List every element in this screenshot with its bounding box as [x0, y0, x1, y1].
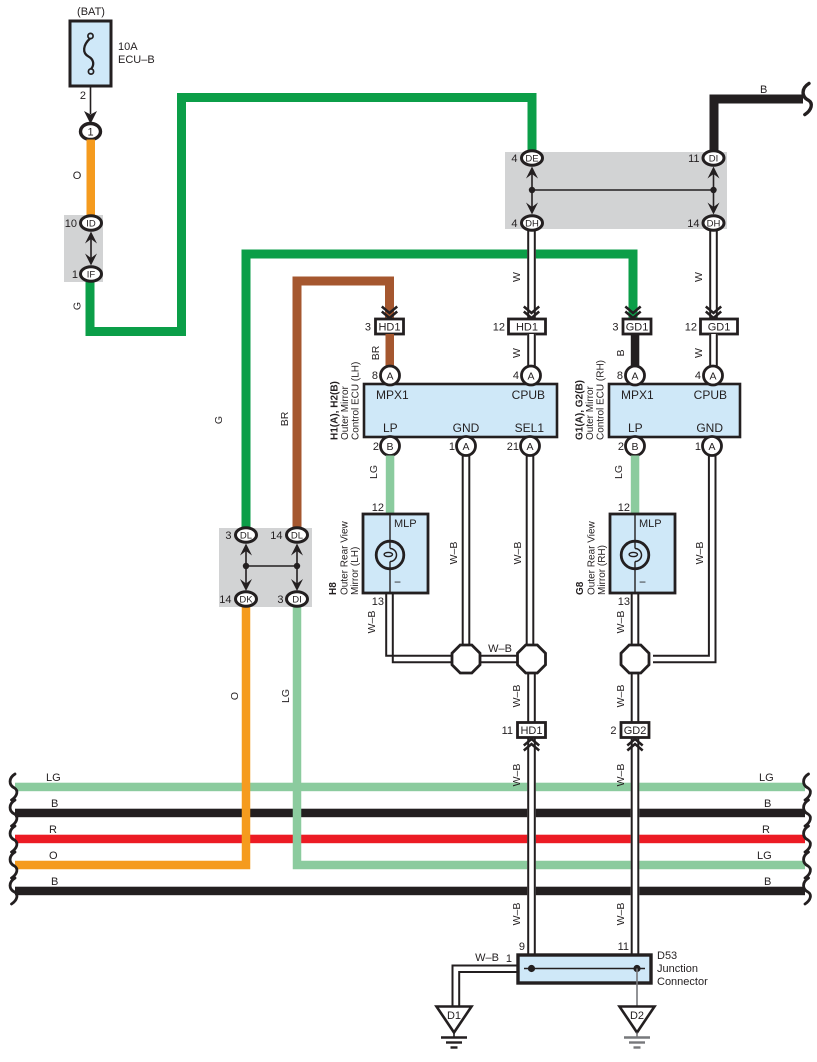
- ECU RH box: [609, 384, 740, 437]
- svg-text:GD2: GD2: [624, 725, 647, 737]
- svg-text:O: O: [73, 170, 82, 182]
- svg-text:2: 2: [80, 90, 86, 102]
- svg-text:GND: GND: [696, 421, 723, 435]
- wire fuse to node 1 with arrow: [84, 86, 97, 124]
- wire B battery feed to DI: [714, 83, 811, 153]
- svg-text:W: W: [511, 272, 523, 282]
- svg-text:W–B: W–B: [694, 542, 706, 565]
- svg-text:GD1: GD1: [626, 322, 649, 334]
- svg-text:W–B: W–B: [475, 952, 499, 964]
- svg-text:11: 11: [502, 725, 513, 737]
- ECU G1(A),G2(B) vertical labels: [575, 360, 607, 440]
- wire BR from DL(14) to HD1: [279, 281, 390, 530]
- svg-text:W–B: W–B: [511, 764, 523, 787]
- svg-text:B: B: [764, 798, 771, 810]
- connector 11 HD1: [502, 723, 546, 738]
- svg-text:ID: ID: [86, 219, 96, 230]
- pin LP (2 B): [381, 437, 400, 456]
- svg-text:H1(A), H2(B): H1(A), H2(B): [330, 381, 341, 440]
- mirror H8 box: [363, 514, 428, 593]
- svg-text:Control ECU (RH): Control ECU (RH): [596, 360, 607, 440]
- wire BR HD1 to MPX1 LH: [370, 334, 394, 367]
- svg-text:G8: G8: [575, 581, 586, 595]
- svg-text:13: 13: [618, 596, 630, 608]
- connector pin IF: [81, 267, 102, 281]
- svg-text:B: B: [386, 441, 393, 453]
- wire W from DH(14) to 12 GD1: [693, 229, 718, 318]
- svg-text:LG: LG: [280, 689, 292, 703]
- pin LP RH (2 B): [626, 437, 645, 456]
- svg-text:ECU–B: ECU–B: [118, 54, 155, 66]
- svg-text:2: 2: [610, 725, 616, 737]
- svg-text:1: 1: [695, 441, 701, 453]
- svg-text:Junction: Junction: [657, 963, 698, 975]
- label D53 Junction Connector: [657, 950, 708, 988]
- svg-text:Outer Mirror: Outer Mirror: [585, 385, 596, 440]
- double arrow DI-DH: [713, 171, 715, 211]
- svg-text:4: 4: [513, 370, 519, 382]
- svg-text:W–B: W–B: [615, 903, 627, 926]
- svg-text:CPUB: CPUB: [512, 388, 545, 402]
- svg-text:Mirror (LH): Mirror (LH): [350, 547, 361, 595]
- connector pin DH (left): [522, 216, 543, 230]
- svg-text:12: 12: [618, 502, 630, 514]
- ECU H1(A),H2(B) vertical labels: [330, 362, 362, 440]
- svg-text:H8: H8: [328, 582, 339, 595]
- pin CPUB (4 A): [522, 366, 541, 385]
- wire W-B from G8 pin 13 to junction J3: [615, 593, 639, 646]
- svg-text:12: 12: [493, 322, 505, 334]
- svg-text:G: G: [213, 416, 225, 424]
- pin MPX1 RH (8 A): [626, 366, 645, 385]
- junction J1 (octagon): [452, 645, 480, 673]
- svg-text:12: 12: [372, 502, 384, 514]
- svg-text:LP: LP: [628, 421, 643, 435]
- pin SEL1 (21 A): [521, 437, 540, 456]
- wire W-B from H8 pin 13 to junction J1: [366, 593, 452, 662]
- svg-text:3: 3: [225, 530, 231, 542]
- svg-text:DL: DL: [240, 531, 252, 542]
- arrow into 12 GD1: [706, 307, 721, 314]
- wire W-B from 11 HD1 down to D53 pin 9: [511, 738, 536, 955]
- svg-text:A: A: [709, 370, 716, 382]
- svg-text:B: B: [51, 876, 58, 888]
- svg-text:4: 4: [695, 370, 701, 382]
- svg-text:LG: LG: [368, 465, 380, 479]
- svg-text:−: −: [639, 575, 646, 589]
- connector 12 HD1: [493, 319, 546, 334]
- junction link line DE/DI block: [532, 189, 714, 191]
- svg-text:11: 11: [618, 941, 629, 953]
- svg-text:W–B: W–B: [511, 903, 523, 926]
- svg-text:A: A: [527, 370, 534, 382]
- svg-text:DH: DH: [525, 219, 539, 230]
- pin MPX1 (8 A): [381, 366, 400, 385]
- junction connector D53: [518, 955, 651, 983]
- bus wire LG (body harness, top): [10, 772, 810, 800]
- svg-text:21: 21: [507, 441, 519, 453]
- svg-text:GD1: GD1: [708, 322, 731, 334]
- D53 internal bus line: [524, 968, 645, 970]
- arrow into 3 GD1: [625, 307, 640, 314]
- wire G from DL(3) to GD1: [213, 254, 633, 530]
- svg-text:12: 12: [685, 322, 697, 334]
- svg-text:3: 3: [365, 322, 371, 334]
- mirror G8 vertical labels: [575, 520, 608, 595]
- svg-text:14: 14: [687, 218, 699, 230]
- svg-text:B: B: [615, 349, 627, 356]
- svg-text:DE: DE: [525, 154, 538, 165]
- wire W-B from LH GND pin 1 to junction J1: [448, 453, 470, 646]
- double arrow DL-DI: [296, 548, 298, 588]
- svg-text:R: R: [762, 824, 770, 836]
- wire W-B from RH GND pin 1 to junction J3: [653, 452, 716, 662]
- svg-text:Mirror (RH): Mirror (RH): [597, 545, 608, 595]
- node 1: [81, 124, 101, 140]
- bus wire B (bottom): [10, 876, 810, 904]
- wire W-B from LH SEL1 pin 21 to junction J2: [512, 453, 534, 646]
- svg-text:DI: DI: [709, 154, 719, 165]
- svg-text:LG: LG: [46, 772, 61, 784]
- svg-text:D1: D1: [447, 1010, 461, 1022]
- svg-text:D2: D2: [630, 1010, 644, 1022]
- connector 12 GD1: [685, 319, 738, 334]
- svg-text:W–B: W–B: [511, 685, 523, 708]
- svg-text:O: O: [229, 692, 241, 700]
- svg-text:Outer Rear View: Outer Rear View: [340, 520, 351, 595]
- svg-text:SEL1: SEL1: [515, 421, 545, 435]
- arrow into 2 GD2: [627, 744, 642, 751]
- lamp MLP LH: [376, 541, 404, 569]
- svg-text:HD1: HD1: [516, 322, 538, 334]
- svg-text:W–B: W–B: [512, 542, 524, 565]
- svg-text:MLP: MLP: [639, 518, 662, 530]
- arrow into 3 HD1: [382, 307, 397, 314]
- svg-text:W–B: W–B: [366, 611, 378, 634]
- wire W-B from J3 down to 2 GD2: [615, 672, 639, 722]
- connector pin DK: [236, 592, 257, 606]
- junction J2 (octagon): [518, 645, 546, 673]
- svg-text:W–B: W–B: [488, 643, 512, 655]
- wire LG from DI to right bus: [280, 604, 810, 878]
- svg-text:B: B: [764, 876, 771, 888]
- svg-text:14: 14: [219, 594, 231, 606]
- svg-text:Connector: Connector: [657, 976, 708, 988]
- svg-text:A: A: [386, 370, 393, 382]
- ground D2: [620, 1007, 655, 1048]
- svg-text:14: 14: [270, 530, 282, 542]
- svg-text:W–B: W–B: [448, 542, 460, 565]
- svg-text:3: 3: [612, 322, 618, 334]
- junction link line DL block: [246, 565, 297, 567]
- wire B GD1 to MPX1 RH: [615, 334, 639, 367]
- svg-text:1: 1: [87, 127, 93, 139]
- connector pin DL (right): [287, 528, 308, 542]
- svg-text:A: A: [526, 441, 533, 453]
- svg-text:Outer Rear View: Outer Rear View: [587, 520, 598, 595]
- pin GND (1 A): [457, 437, 476, 456]
- svg-text:A: A: [462, 441, 469, 453]
- svg-text:W–B: W–B: [615, 764, 627, 787]
- wire O fuse node 1 to ID: [73, 140, 95, 217]
- wire W-B link J1 to J2: [479, 643, 518, 662]
- svg-text:−: −: [394, 575, 401, 589]
- svg-text:W: W: [693, 272, 705, 282]
- svg-text:(BAT): (BAT): [77, 6, 105, 18]
- svg-text:BR: BR: [370, 345, 382, 360]
- svg-text:DK: DK: [239, 595, 253, 606]
- svg-text:GND: GND: [453, 421, 480, 435]
- svg-text:B: B: [631, 441, 638, 453]
- wire W 12GD1 to CPUB RH: [693, 334, 718, 367]
- wire D53 to ground D2: [636, 969, 638, 1007]
- wire W from DH(4) to 12 HD1: [511, 229, 536, 318]
- svg-text:LP: LP: [383, 421, 398, 435]
- svg-text:11: 11: [688, 153, 699, 165]
- svg-text:A: A: [708, 441, 715, 453]
- ground D1: [437, 1007, 472, 1048]
- D53 node dot pin 9: [528, 965, 535, 972]
- double arrow ID-IF: [90, 236, 92, 262]
- wire LG LP to H8 pin 12: [368, 456, 394, 515]
- svg-text:2: 2: [618, 441, 624, 453]
- connector 2 GD2: [610, 723, 649, 738]
- ECU LH box: [364, 384, 557, 437]
- connector pin DI (bottom): [287, 592, 308, 606]
- svg-text:Outer Mirror: Outer Mirror: [340, 385, 351, 440]
- wire W-B D53 pin 1 to ground D1: [453, 952, 519, 1006]
- svg-text:DH: DH: [707, 219, 721, 230]
- svg-text:A: A: [631, 370, 638, 382]
- wire W-B from 2 GD2 down to D53 pin 11: [615, 738, 639, 955]
- mirror G8 box: [610, 514, 675, 593]
- connector 3 GD1: [612, 319, 651, 334]
- svg-text:10: 10: [65, 218, 77, 230]
- wire G main feed: IF to DE: [72, 98, 533, 332]
- svg-text:10A: 10A: [118, 41, 138, 53]
- connector 3 HD1: [365, 319, 404, 334]
- svg-text:LG: LG: [613, 465, 625, 479]
- mirror H8 vertical labels: [328, 520, 361, 595]
- wire O orange from DK to left bus: [10, 604, 246, 878]
- svg-text:2: 2: [373, 441, 379, 453]
- bus wire B (2nd): [10, 798, 810, 826]
- svg-text:3: 3: [277, 594, 283, 606]
- fuse 10A ECU-B: [70, 21, 155, 86]
- arrow into 11 HD1: [524, 744, 539, 751]
- svg-text:DI: DI: [292, 595, 302, 606]
- svg-text:O: O: [49, 850, 58, 862]
- svg-text:4: 4: [511, 218, 517, 230]
- bus wire R (3rd): [10, 824, 810, 852]
- svg-text:MLP: MLP: [394, 518, 417, 530]
- connector pin DH (right): [703, 216, 724, 230]
- svg-text:CPUB: CPUB: [694, 388, 727, 402]
- svg-text:1: 1: [506, 953, 512, 965]
- svg-text:B: B: [760, 84, 767, 96]
- D53 node dot pin 11: [633, 965, 640, 972]
- svg-text:DL: DL: [291, 531, 303, 542]
- svg-text:13: 13: [372, 596, 384, 608]
- junction J3 (octagon): [621, 645, 649, 673]
- svg-text:9: 9: [519, 941, 525, 953]
- svg-text:MPX1: MPX1: [376, 388, 409, 402]
- svg-text:IF: IF: [87, 270, 96, 281]
- svg-text:1: 1: [449, 441, 455, 453]
- connector block DL/DK-DI: [219, 528, 312, 607]
- svg-text:W: W: [511, 348, 523, 358]
- svg-text:BR: BR: [279, 411, 291, 426]
- svg-text:W–B: W–B: [615, 685, 627, 708]
- lamp MLP RH: [621, 541, 649, 569]
- svg-text:1: 1: [72, 269, 78, 281]
- pin GND RH (1 A): [703, 437, 722, 456]
- svg-text:D53: D53: [657, 950, 677, 962]
- double arrow DE-DH: [531, 171, 533, 211]
- svg-text:Control ECU (LH): Control ECU (LH): [351, 362, 362, 440]
- svg-text:G: G: [72, 302, 84, 310]
- arrow into 12 HD1: [524, 307, 539, 314]
- svg-text:G1(A), G2(B): G1(A), G2(B): [575, 380, 586, 440]
- svg-text:8: 8: [617, 370, 623, 382]
- wire LG LP to G8 pin 12: [613, 456, 639, 515]
- svg-text:4: 4: [511, 153, 517, 165]
- svg-text:W: W: [693, 348, 705, 358]
- connector block DE/DI-DH: [505, 152, 727, 229]
- svg-text:B: B: [51, 798, 58, 810]
- connector pin ID: [81, 216, 102, 230]
- svg-text:HD1: HD1: [378, 322, 400, 334]
- wire W-B from J2 down to 11 HD1: [511, 672, 536, 722]
- connector pin DE: [522, 151, 543, 165]
- svg-text:8: 8: [372, 370, 378, 382]
- wire W 12HD1 to CPUB LH: [511, 334, 536, 367]
- connector pin DI: [703, 151, 724, 165]
- svg-text:W–B: W–B: [615, 611, 627, 634]
- double arrow DL-DK: [245, 548, 247, 588]
- connector ID/IF block: [64, 215, 103, 282]
- svg-text:LG: LG: [759, 772, 774, 784]
- svg-text:R: R: [49, 824, 57, 836]
- svg-text:HD1: HD1: [520, 725, 542, 737]
- connector pin DL (left): [236, 528, 257, 542]
- pin CPUB RH (4 A): [704, 366, 723, 385]
- svg-text:LG: LG: [757, 850, 772, 862]
- svg-text:MPX1: MPX1: [621, 388, 654, 402]
